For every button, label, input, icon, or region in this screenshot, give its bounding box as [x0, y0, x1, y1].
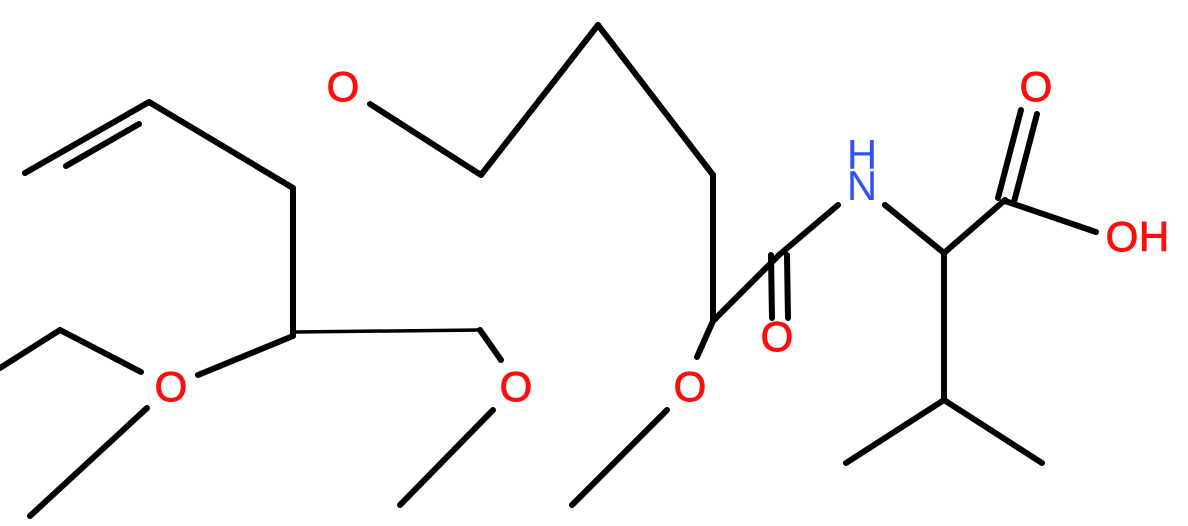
wire: amide C=O5 double line 1	[771, 255, 772, 318]
svg-text:O: O	[155, 363, 188, 410]
wire: V4 to O4 stub	[697, 321, 713, 357]
svg-text:O: O	[761, 313, 794, 360]
wire: vertical V3 to V4	[710, 175, 716, 321]
wire: O3 methyl down-left	[400, 410, 493, 505]
wire: C=C double bond inner line top-left	[66, 124, 139, 166]
wire: vertical bond C to V6	[290, 188, 296, 336]
svg-text:O: O	[1106, 213, 1139, 260]
wire: V7 right methyl	[944, 400, 1042, 463]
wire: C=C double bond outer line top-left	[25, 102, 149, 173]
svg-text:H: H	[1139, 213, 1169, 260]
wire: alpha C to carboxyl C	[944, 200, 1005, 253]
wire: carboxyl C=O6 double line 1	[998, 110, 1021, 198]
wire: chain leg to O2 glyph	[60, 330, 141, 372]
wire: carboxyl C=O6 double line 2	[1014, 114, 1037, 202]
wire: O2 methyl stub down-left	[30, 408, 147, 516]
wire: bond V6 to O2	[198, 336, 293, 375]
wire: O4 methyl down-left	[572, 410, 667, 505]
wire: left chain leg into canvas edge	[0, 330, 60, 368]
wire: V2 to apex	[481, 25, 598, 175]
svg-text:H: H	[847, 131, 877, 178]
wire: carboxyl C to OH	[1005, 201, 1096, 232]
wire: amide C=O5 double line 2	[787, 255, 788, 318]
wire: horizontal bond V6 to V9	[295, 330, 480, 332]
wire: apex to V3	[598, 25, 713, 175]
wire: V7 left methyl	[846, 400, 944, 463]
wire: O1 to V2	[370, 104, 481, 175]
wire: V9 to O3 stub	[480, 330, 501, 360]
wire: N to amide C	[779, 205, 838, 255]
svg-text:O: O	[674, 363, 707, 410]
wire: bond A to C	[149, 102, 293, 188]
svg-text:O: O	[500, 363, 533, 410]
wire: V4 to amide C	[713, 255, 779, 321]
wire: alpha C down to V7	[941, 253, 947, 400]
svg-text:O: O	[327, 63, 360, 110]
svg-text:O: O	[1020, 63, 1053, 110]
wire: N to alpha C	[885, 205, 944, 253]
